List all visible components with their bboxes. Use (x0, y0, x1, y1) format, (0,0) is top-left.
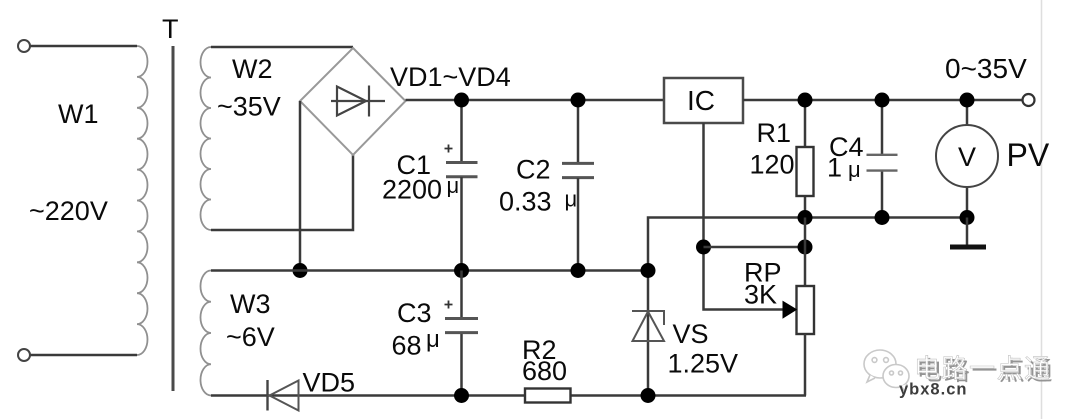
capacitor C3 (445, 271, 479, 396)
node adj (696, 240, 711, 255)
svg-text:W2: W2 (232, 54, 273, 84)
svg-text:0~35V: 0~35V (945, 53, 1027, 84)
svg-text:680: 680 (522, 356, 567, 386)
svg-text:W1: W1 (58, 99, 99, 129)
svg-text:C3: C3 (397, 298, 432, 328)
wire bottom rail (211, 394, 806, 397)
wire adj to RP top (704, 246, 806, 249)
wire W2 top (211, 46, 353, 49)
wire R1 bottom to RP (804, 218, 807, 287)
svg-text:μ: μ (565, 187, 578, 212)
svg-text:W3: W3 (230, 289, 271, 319)
svg-text:VD1~VD4: VD1~VD4 (390, 62, 511, 92)
wire common rail (211, 269, 648, 272)
node VS top (641, 263, 656, 278)
resistor R2 (525, 389, 571, 403)
winding W2 (201, 47, 212, 230)
wire IC adj down (704, 123, 784, 310)
node VS bottom (641, 388, 656, 403)
svg-text:IC: IC (687, 85, 715, 116)
resistor R1 (797, 100, 814, 218)
bridge inner diode (331, 86, 385, 117)
terminal input bottom (18, 349, 30, 361)
terminal output (1023, 94, 1035, 106)
svg-text:0.33: 0.33 (499, 187, 552, 217)
svg-text:~6V: ~6V (226, 322, 275, 352)
bridge rectifier diamond (300, 48, 406, 155)
svg-text:68: 68 (392, 331, 422, 361)
svg-text:~35V: ~35V (217, 92, 281, 122)
svg-text:VS: VS (673, 319, 709, 349)
ground (966, 218, 969, 245)
svg-text:电路一点通: 电路一点通 (914, 354, 1052, 384)
svg-text:VD5: VD5 (303, 368, 356, 398)
transformer core T (172, 46, 175, 391)
voltmeter PV (936, 100, 998, 218)
node C3 top (454, 263, 469, 278)
diode VD5 (268, 380, 299, 411)
page edge line (1041, 0, 1043, 419)
node R1 top (798, 93, 813, 108)
wire output ground rail (648, 218, 967, 396)
terminal input top (18, 40, 30, 52)
node C3 bottom (454, 388, 469, 403)
potentiometer RP (783, 286, 814, 396)
wire main bus left (406, 99, 665, 102)
node C2 top (571, 93, 586, 108)
capacitor C2 (562, 100, 594, 271)
svg-text:C2: C2 (516, 155, 551, 185)
node C2 bottom (571, 263, 586, 278)
node PV top (960, 93, 975, 108)
node RP top wire (798, 240, 813, 255)
capacitor C4 (867, 100, 898, 218)
svg-text:1: 1 (827, 153, 842, 183)
svg-text:μ: μ (426, 326, 440, 353)
svg-text:120: 120 (750, 150, 795, 180)
svg-text:~220V: ~220V (29, 196, 108, 226)
node PV bottom (960, 210, 975, 225)
svg-text:1.25V: 1.25V (668, 349, 739, 379)
svg-text:2200: 2200 (382, 175, 442, 205)
svg-text:R1: R1 (757, 118, 792, 148)
svg-text:ybx8.cn: ybx8.cn (899, 381, 967, 399)
winding W3 (200, 271, 211, 396)
wire input bottom (31, 354, 138, 357)
svg-text:μ: μ (447, 173, 460, 198)
svg-text:3K: 3K (744, 280, 777, 310)
svg-text:T: T (162, 14, 179, 44)
node R1 bottom (798, 210, 813, 225)
node C1 top (454, 93, 469, 108)
winding W1 (137, 46, 148, 355)
node bridge minus / common rail (293, 263, 308, 278)
svg-text:V: V (958, 142, 976, 172)
wire bridge minus down (299, 101, 302, 271)
node C4 top (875, 93, 890, 108)
svg-text:μ: μ (848, 157, 861, 182)
regulator IC (664, 78, 743, 123)
node C4 bottom (875, 210, 890, 225)
zener VS (632, 311, 664, 341)
svg-text:PV: PV (1007, 137, 1050, 173)
wire main bus right (743, 99, 1023, 102)
capacitor C1 (445, 100, 478, 271)
wire input top (31, 45, 138, 48)
watermark wechat icon (864, 350, 909, 392)
wire W2 bottom (211, 155, 353, 230)
